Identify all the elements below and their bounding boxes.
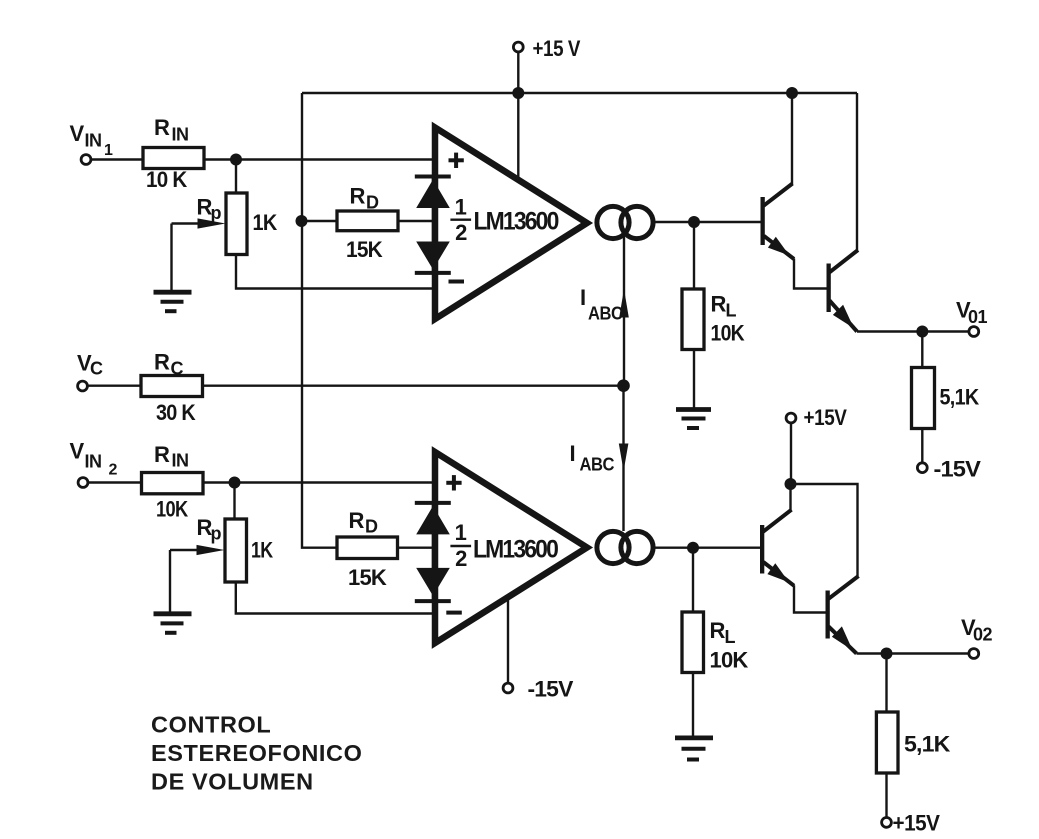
wire Q1 emitter to Q2 base	[794, 259, 827, 289]
wiper arrow RP2	[170, 545, 225, 555]
wire +15V bus to RD resistors	[302, 93, 338, 548]
svg-text:1: 1	[104, 142, 113, 159]
label RC	[154, 350, 184, 379]
svg-text:L: L	[725, 627, 736, 647]
wire node to pot RP1	[235, 160, 237, 194]
terminal +15V (lower buffer)	[786, 413, 796, 423]
svg-text:-15V: -15V	[528, 677, 574, 702]
svg-text:1K: 1K	[251, 538, 273, 563]
svg-text:V: V	[70, 121, 85, 146]
wire RC to IABC node	[203, 385, 624, 387]
svg-text:D: D	[365, 517, 378, 537]
arrow IABC1 up	[619, 289, 629, 318]
wire node to Q4 collector	[791, 484, 858, 576]
svg-text:-15V: -15V	[934, 457, 982, 482]
wiper arrow RP1	[172, 218, 226, 228]
junction +15V rail	[512, 87, 524, 99]
wire Q3 collector vertical	[789, 484, 791, 510]
wire node to pot RP2	[233, 483, 235, 520]
wire pot RP1 bottom to OTA1 minus input	[236, 255, 435, 289]
label RD2	[349, 508, 379, 537]
wire node to RL2	[692, 548, 694, 612]
label IABC1	[580, 285, 623, 324]
svg-text:10K: 10K	[710, 648, 749, 673]
potentiometer RP1 body	[226, 193, 247, 255]
transistor Q1 emitter	[764, 236, 794, 259]
label RD1	[350, 184, 380, 213]
label 1/2 fraction U2	[450, 520, 471, 571]
wire Q3 emitter to Q4 base	[794, 585, 826, 612]
wire +15V to Q3 collector node	[790, 423, 792, 484]
wire VC to RC	[88, 385, 142, 387]
svg-text:IN: IN	[85, 452, 102, 472]
wire wiper RP1 to ground	[170, 224, 172, 291]
minus input mark U2	[446, 611, 462, 615]
svg-text:I: I	[570, 441, 576, 466]
svg-text:+15 V: +15 V	[533, 36, 581, 61]
junction U2 output node	[687, 542, 699, 554]
resistor RIN2	[142, 473, 204, 494]
junction V01 node	[916, 326, 928, 338]
wire OTA2 to -15V terminal	[507, 599, 509, 684]
minus input mark U1	[449, 280, 465, 284]
label RP1	[197, 195, 222, 224]
svg-text:01: 01	[968, 307, 988, 327]
svg-text:LM13600: LM13600	[473, 536, 558, 564]
wire R1 to -15V terminal	[921, 429, 923, 463]
svg-text:IN: IN	[172, 125, 189, 145]
potentiometer RP2 body	[225, 519, 247, 582]
junction IABC node	[617, 379, 630, 392]
svg-text:1: 1	[455, 520, 467, 545]
op-amp U1 (1/2 LM13600) triangle	[435, 128, 587, 320]
resistor RIN1	[143, 148, 204, 169]
svg-text:10K: 10K	[156, 497, 188, 522]
svg-text:C: C	[90, 359, 103, 379]
wire +15V feed down to OTA1 top edge	[517, 52, 519, 182]
terminal +15V top	[513, 42, 523, 52]
svg-text:R: R	[154, 442, 170, 467]
svg-text:DE VOLUMEN: DE VOLUMEN	[151, 769, 314, 795]
label IABC2	[570, 441, 615, 475]
transistor Q1 collector	[764, 184, 793, 206]
terminal VIN1	[81, 155, 91, 165]
svg-text:ABC: ABC	[588, 304, 623, 324]
wire U1 output to Q1 base	[655, 221, 761, 223]
output current-source circles U1	[597, 206, 653, 238]
wire node to R1 (5,1K)	[921, 332, 923, 368]
junction Q1 collector rail	[786, 87, 798, 99]
svg-text:LM13600: LM13600	[474, 208, 559, 236]
junction VIN1 node	[230, 154, 242, 166]
svg-text:L: L	[726, 301, 737, 321]
svg-text:p: p	[211, 524, 222, 544]
wire node to R2 (5,1K)	[885, 654, 887, 713]
svg-text:R: R	[710, 618, 726, 643]
ground (RP1)	[154, 292, 192, 311]
svg-text:2: 2	[109, 462, 118, 479]
transistor Q4 base bar	[826, 591, 830, 639]
wire rail right drop to Q2 collector	[856, 93, 858, 251]
svg-text:ESTEREOFONICO: ESTEREOFONICO	[151, 740, 363, 766]
resistor R1 5,1K	[912, 368, 935, 429]
wire RIN2 to OTA2 plus input	[203, 481, 435, 483]
svg-text:2: 2	[455, 220, 467, 245]
svg-text:5,1K: 5,1K	[940, 385, 980, 410]
transistor Q4 emitter	[829, 626, 857, 653]
svg-text:1: 1	[455, 194, 467, 219]
wire +15V top rail	[302, 92, 857, 94]
transistor Q4 collector	[829, 576, 859, 599]
wire pot RP2 bottom to OTA2 minus input	[236, 582, 435, 614]
junction Q3 collector node	[785, 478, 797, 490]
svg-text:2: 2	[455, 546, 467, 571]
op-amp U2 (1/2 LM13600) triangle	[435, 452, 587, 643]
label V01	[956, 298, 988, 328]
svg-text:1K: 1K	[253, 210, 278, 235]
terminal +15V bottom	[882, 818, 892, 828]
svg-text:C: C	[171, 359, 184, 379]
wire node to RL1	[693, 222, 695, 289]
wire RL2 to ground	[692, 673, 694, 737]
junction RD1 bus	[296, 215, 308, 227]
diode chain conductor U1	[432, 177, 434, 273]
label RP2	[197, 515, 222, 544]
transistor Q2 collector	[830, 250, 859, 272]
wire VIN2 to RIN2	[88, 481, 142, 483]
terminal -15V (U2)	[503, 683, 513, 693]
terminal VC	[78, 381, 88, 391]
ground (RL2)	[675, 738, 713, 760]
label RL2	[710, 618, 736, 647]
diode D4 (triangle + cathode bar)	[415, 568, 451, 601]
label 1/2 fraction U1	[450, 194, 471, 245]
wire bus to RD1	[302, 220, 338, 222]
ground (RP2)	[154, 614, 192, 633]
wire Q1 collector to rail	[791, 93, 793, 185]
svg-text:5,1K: 5,1K	[904, 732, 950, 757]
label RIN1	[154, 115, 189, 145]
wire wiper RP2 to ground	[169, 550, 171, 612]
transistor Q2 base bar	[827, 264, 831, 313]
terminal V01	[969, 327, 979, 337]
svg-text:10 K: 10 K	[146, 167, 187, 192]
svg-text:30 K: 30 K	[156, 400, 196, 425]
svg-text:p: p	[211, 203, 222, 223]
svg-text:+15V: +15V	[804, 405, 848, 430]
resistor RL2	[682, 612, 704, 673]
svg-text:D: D	[366, 193, 379, 213]
transistor Q3 emitter	[763, 562, 794, 586]
diode D3 (cathode bar + triangle)	[415, 503, 451, 535]
transistor Q1 base bar	[761, 197, 765, 245]
diode D1 (cathode bar + triangle)	[415, 177, 451, 209]
wire RIN1 to OTA1 plus input	[204, 158, 435, 160]
plus input mark U2	[446, 475, 461, 490]
output current-source circles U2	[597, 531, 653, 563]
wire Q2 emitter to V01	[857, 330, 969, 332]
label RIN2	[154, 442, 189, 471]
junction U1 output node	[688, 216, 700, 228]
ground (RL1)	[676, 410, 711, 429]
label V02	[961, 615, 993, 645]
svg-text:R: R	[349, 508, 365, 533]
svg-text:I: I	[580, 285, 586, 310]
wire IABC1 bias	[623, 237, 625, 386]
svg-text:IN: IN	[172, 451, 189, 471]
wire Q4 emitter to V02	[857, 652, 970, 654]
wire U2 output to Q3 base	[655, 547, 760, 549]
terminal -15V (R1)	[917, 463, 927, 473]
svg-text:R: R	[711, 292, 727, 317]
transistor Q3 collector	[763, 510, 792, 532]
arrow IABC2 down	[619, 444, 629, 472]
resistor RC	[141, 376, 203, 397]
svg-text:V: V	[70, 439, 85, 464]
plus input mark U1	[449, 153, 464, 168]
wire RD2 to diode midpoint	[398, 547, 434, 549]
terminal V02	[969, 649, 979, 659]
terminal VIN2	[78, 478, 88, 488]
transistor Q3 base bar	[760, 525, 764, 574]
svg-text:15K: 15K	[346, 237, 383, 262]
svg-text:ABC: ABC	[580, 455, 615, 475]
resistor R2 5,1K	[876, 712, 898, 773]
wire VIN1 to RIN1	[91, 158, 143, 160]
wire RD1 to diode midpoint	[398, 220, 433, 222]
svg-text:R: R	[154, 115, 170, 140]
diode chain conductor U2	[432, 503, 434, 601]
junction VIN2 node	[229, 477, 241, 489]
transistor Q2 emitter	[830, 301, 858, 332]
label VIN2	[70, 439, 118, 479]
svg-text:R: R	[350, 184, 366, 209]
svg-text:CONTROL: CONTROL	[151, 712, 271, 738]
label VIN1	[70, 121, 114, 159]
svg-text:02: 02	[973, 625, 993, 645]
label RL1	[711, 292, 737, 321]
resistor RD1	[337, 211, 398, 231]
wire R2 to +15V terminal	[885, 773, 887, 818]
wire RL1 to ground	[693, 350, 695, 409]
svg-text:IN: IN	[85, 131, 102, 151]
label VC	[77, 351, 103, 379]
svg-text:R: R	[154, 350, 170, 375]
resistor RD2	[337, 537, 398, 559]
diode D2 (triangle + cathode bar)	[415, 242, 451, 273]
junction V02 node	[881, 648, 893, 660]
wire IABC2 bias	[622, 386, 624, 531]
resistor RL1	[682, 289, 704, 350]
svg-text:15K: 15K	[348, 565, 387, 590]
svg-text:+15V: +15V	[893, 811, 941, 836]
svg-text:10K: 10K	[711, 321, 745, 346]
